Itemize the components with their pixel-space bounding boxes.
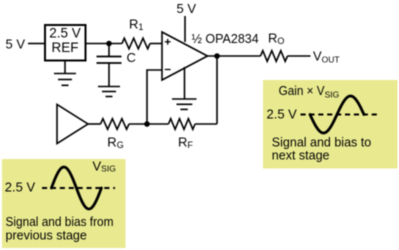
wire: 5V to REF input xyxy=(28,43,44,45)
svg-text:RO: RO xyxy=(268,31,284,47)
node: REF output junction xyxy=(106,41,112,47)
svg-text:C: C xyxy=(127,50,136,65)
resistor RO xyxy=(261,51,288,62)
svg-text:2.5 V: 2.5 V xyxy=(267,106,298,121)
op-amp - pin mark xyxy=(165,69,171,71)
buffer amp (previous stage) xyxy=(57,105,88,144)
svg-text:Signal and bias to: Signal and bias to xyxy=(272,136,371,150)
ground (REF) xyxy=(54,74,76,86)
svg-text:5 V: 5 V xyxy=(177,1,197,16)
wire: R1 to op-amp + input xyxy=(150,43,162,45)
op-amp + pin mark xyxy=(165,39,171,45)
resistor RG xyxy=(101,119,130,130)
node: output junction xyxy=(214,53,220,59)
svg-text:SIG: SIG xyxy=(325,89,340,99)
svg-text:RG: RG xyxy=(107,135,123,151)
ground (op-amp) xyxy=(172,99,197,109)
wire: RG to summing junction xyxy=(129,123,147,125)
wire: feedback to RF xyxy=(195,123,217,125)
capacitor C stem xyxy=(108,44,110,57)
svg-text:RF: RF xyxy=(178,135,193,151)
wire: op-amp V- to ground xyxy=(184,67,186,99)
ground (capacitor) xyxy=(98,87,120,97)
svg-text:Gain × V: Gain × V xyxy=(279,84,326,98)
wire: REF ground stem xyxy=(64,61,66,74)
callout box: signal from previous stage xyxy=(2,159,126,248)
wire: RF to summing junction xyxy=(147,123,169,125)
svg-text:5 V: 5 V xyxy=(6,37,26,52)
callout box: signal to next stage xyxy=(263,80,398,169)
svg-text:VOUT: VOUT xyxy=(313,49,340,65)
wire: 5V to op-amp V+ xyxy=(184,16,186,42)
svg-text:½ OPA2834: ½ OPA2834 xyxy=(192,32,259,46)
wire: feedback down from output node xyxy=(216,56,218,124)
voltage reference 2.5V REF xyxy=(45,25,86,61)
sine wave (right box) xyxy=(310,96,364,133)
svg-text:next stage: next stage xyxy=(272,149,330,163)
resistor R1 xyxy=(122,38,150,49)
op-amp 1/2 OPA2834 xyxy=(162,32,208,80)
wire: junction up to inverting input xyxy=(147,70,162,124)
wire: capacitor to ground xyxy=(108,63,110,87)
capacitor C xyxy=(97,57,122,64)
wire: buffer to RG xyxy=(88,123,101,125)
wire: REF output to R1 xyxy=(86,43,122,45)
dashed bias line (left box) xyxy=(42,187,115,189)
sine wave (left box) xyxy=(51,167,101,209)
resistor RF xyxy=(169,119,196,130)
wire: RO to VOUT xyxy=(288,55,311,57)
svg-text:Signal and bias from: Signal and bias from xyxy=(6,215,114,229)
node: summing junction xyxy=(144,121,150,127)
svg-text:R1: R1 xyxy=(129,17,143,33)
svg-text:2.5 V: 2.5 V xyxy=(49,26,81,41)
wire: op-amp output xyxy=(208,55,261,57)
svg-text:2.5 V: 2.5 V xyxy=(5,179,36,194)
svg-text:REF: REF xyxy=(52,40,79,55)
svg-text:previous stage: previous stage xyxy=(6,229,87,243)
dashed bias line (right box) xyxy=(301,114,379,116)
